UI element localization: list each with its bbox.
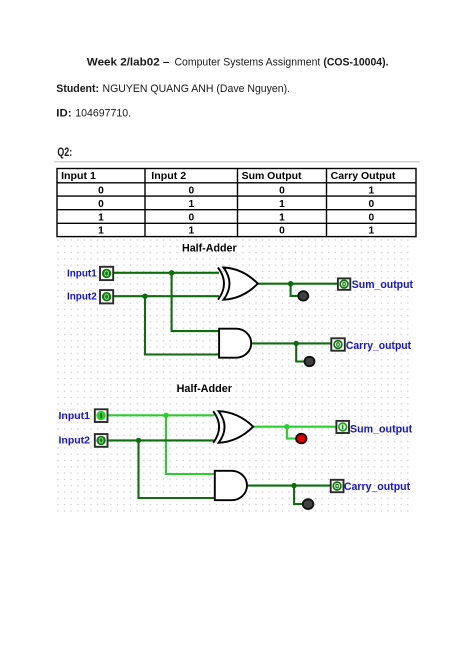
junction on input1 wire (high) (163, 413, 168, 418)
svg-text:Carry Output: Carry Output (331, 171, 396, 182)
LED sum (off, gray) (298, 291, 308, 300)
svg-text:0: 0 (188, 185, 194, 196)
wire input2 horizontal (113, 295, 219, 297)
svg-text:Computer Systems Assignment: Computer Systems Assignment (175, 57, 321, 69)
svg-text:Week 2/lab02 –: Week 2/lab02 – (87, 57, 170, 69)
svg-text:0: 0 (98, 185, 104, 196)
wire sum output (258, 283, 338, 285)
wire input1 branch vertical + to AND (high) (166, 415, 215, 474)
svg-text:0: 0 (279, 226, 285, 237)
output pin Carry_output (value 0) (331, 480, 344, 492)
svg-text:1: 1 (98, 212, 104, 223)
wire input2 branch vertical + to AND (145, 296, 219, 354)
truth table data rows (98, 185, 374, 236)
document title line (87, 57, 389, 69)
output pin Carry_output (value 0) (331, 338, 345, 350)
svg-text:Input2: Input2 (59, 436, 91, 447)
wire input2 branch vertical + to AND (low) (139, 440, 215, 498)
junction on input1 wire (169, 270, 174, 275)
junction carry node (294, 341, 299, 346)
svg-text:0: 0 (368, 199, 374, 210)
svg-text:Q2:: Q2: (57, 147, 72, 159)
truth table grid (57, 169, 416, 237)
student line (56, 83, 290, 95)
svg-text:0: 0 (368, 212, 374, 223)
svg-text:Sum_output: Sum_output (352, 279, 413, 291)
svg-text:Student:: Student: (56, 83, 99, 95)
svg-text:1: 1 (279, 199, 285, 210)
input pin Input1 (value 0) (100, 267, 113, 280)
svg-text:Input1: Input1 (59, 411, 91, 422)
svg-text:Half-Adder: Half-Adder (182, 243, 237, 255)
svg-text:Carry_output: Carry_output (346, 340, 411, 352)
svg-text:Input 1: Input 1 (61, 171, 96, 182)
wire carry output (251, 342, 331, 344)
svg-text:Carry_output: Carry_output (344, 481, 410, 493)
xor gate U1 (218, 268, 258, 300)
and gate U2 (219, 329, 251, 358)
LED sum (on, red) (296, 434, 306, 444)
wire sum LED stub (291, 284, 299, 296)
svg-text:Sum Output: Sum Output (242, 171, 303, 182)
svg-text:0: 0 (98, 199, 104, 210)
wire carry LED stub (low) (294, 486, 302, 505)
wire input1 branch vertical + to AND (172, 273, 220, 331)
svg-text:1: 1 (368, 226, 374, 237)
svg-text:Sum_output: Sum_output (350, 423, 412, 435)
svg-text:(COS-10004).: (COS-10004). (323, 57, 388, 69)
output pin Sum_output (value 1) (336, 421, 349, 433)
junction sum node (high) (284, 424, 289, 429)
and gate U4 (215, 471, 247, 500)
wire input1 horizontal (high, bright) (108, 414, 215, 416)
output pin Sum_output (value 0) (338, 278, 350, 289)
wire sum LED stub (high) (287, 427, 296, 439)
input pin Input2 (value 0) (100, 290, 113, 303)
input pin Input1 (value 1, bright) (95, 409, 108, 422)
input pin Input2 (value 0) (95, 434, 108, 447)
faint horizontal rule (54, 161, 420, 163)
LED carry (off, gray) (305, 357, 315, 366)
svg-text:ID:: ID: (56, 107, 71, 119)
wire sum output (high, bright) (253, 426, 336, 428)
wire carry LED stub (296, 343, 304, 361)
id line (56, 107, 131, 119)
LED carry (off, gray) (303, 499, 314, 509)
svg-text:1: 1 (368, 185, 374, 196)
junction on input2 wire (142, 294, 147, 299)
svg-text:1: 1 (188, 226, 194, 237)
truth table header row (61, 171, 396, 182)
svg-text:1: 1 (188, 199, 194, 210)
junction sum node (288, 281, 293, 286)
xor gate U3 (213, 411, 253, 443)
svg-text:Input 2: Input 2 (151, 171, 186, 182)
svg-text:0: 0 (188, 212, 194, 223)
junction on input2 wire (low) (136, 438, 141, 443)
svg-text:Input1: Input1 (67, 268, 97, 279)
svg-text:Input2: Input2 (67, 292, 97, 303)
svg-text:1: 1 (279, 212, 285, 223)
svg-text:NGUYEN QUANG ANH (Dave Nguyen): NGUYEN QUANG ANH (Dave Nguyen). (103, 83, 291, 95)
svg-text:0: 0 (279, 185, 285, 196)
svg-text:104697710.: 104697710. (75, 107, 131, 119)
svg-text:Half-Adder: Half-Adder (177, 383, 233, 395)
wire input2 horizontal (low) (108, 439, 215, 441)
wire carry output (low) (247, 485, 330, 487)
wire input1 horizontal (113, 272, 219, 274)
junction carry node (low) (291, 483, 296, 488)
logisim grid background (57, 239, 412, 514)
svg-text:1: 1 (98, 226, 104, 237)
